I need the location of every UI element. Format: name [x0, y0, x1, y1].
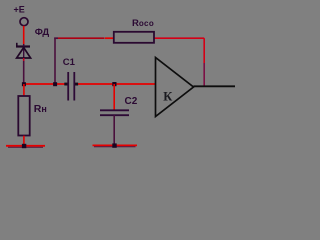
C1 left pin tick: [64, 83, 67, 86]
ground rail right: [93, 144, 138, 146]
wire C1 to op-amp input: [75, 83, 156, 85]
top feedback wire crimson segment: [58, 37, 105, 39]
capacitor C2 bottom plate: [100, 114, 129, 116]
wire C2 top leg: [113, 84, 115, 110]
svg-text:К: К: [163, 90, 172, 104]
top feedback wire corner: [54, 37, 58, 39]
feedback drop wire (left, dark): [54, 38, 56, 85]
output wire: [194, 85, 236, 87]
svg-text:ФД: ФД: [35, 27, 50, 38]
resistor Roc body: [114, 32, 154, 43]
capacitor C2 top plate: [100, 109, 129, 111]
resistor Rn bottom stub: [23, 136, 25, 146]
right feedback drop to output: [203, 38, 205, 63]
svg-text:C1: C1: [63, 57, 76, 68]
top feedback wire red segment to Roc: [105, 37, 114, 39]
wire terminal to photodiode cathode: [23, 26, 25, 46]
top feedback wire Roc to right drop: [154, 37, 204, 39]
resistor Rn body: [18, 96, 29, 136]
svg-text:+E: +E: [14, 5, 25, 15]
svg-text:C2: C2: [125, 96, 138, 107]
junction rail right: [112, 143, 116, 147]
junction rail left: [22, 144, 26, 148]
junction feedback node: [53, 82, 57, 86]
resistor Rn top stub: [23, 84, 25, 96]
C1 right pin tick: [75, 83, 78, 86]
op-amp U1 triangle: [156, 58, 194, 117]
capacitor C1 left plate: [67, 72, 69, 101]
photodiode VD cathode bar: [16, 45, 30, 47]
photodiode VD triangle: [17, 48, 31, 59]
terminal circle +E: [20, 18, 28, 26]
photodiode VD internal wire: [23, 44, 25, 58]
svg-text:Rн: Rн: [34, 103, 47, 115]
wire C2 bottom leg: [113, 115, 115, 145]
ground rail left: [6, 145, 45, 147]
junction node A: [22, 82, 26, 86]
wire node A to C1: [24, 83, 68, 85]
capacitor C1 right plate: [73, 72, 75, 101]
junction C2 node: [112, 82, 116, 86]
svg-text:Rосо: Rосо: [132, 18, 154, 29]
wire photodiode to node A: [23, 58, 25, 61]
